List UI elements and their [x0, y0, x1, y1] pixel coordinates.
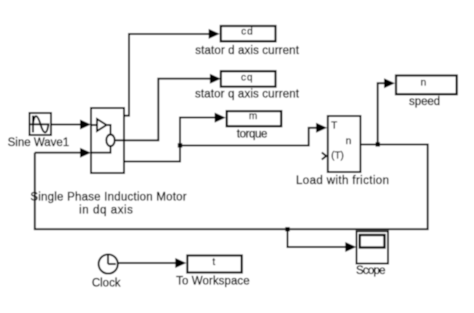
- svg-text:Scope: Scope: [356, 265, 386, 277]
- svg-text:Clock: Clock: [92, 277, 121, 289]
- svg-text:n: n: [346, 136, 352, 147]
- svg-text:cd: cd: [241, 26, 253, 37]
- svg-text:stator q axis current: stator q axis current: [195, 88, 300, 100]
- svg-text:T: T: [331, 120, 337, 131]
- svg-text:Single Phase Induction Motor: Single Phase Induction Motor: [30, 192, 186, 204]
- svg-text:torque: torque: [237, 128, 268, 140]
- svg-text:m: m: [249, 111, 257, 122]
- svg-text:speed: speed: [409, 96, 440, 108]
- svg-text:stator d axis current: stator d axis current: [195, 45, 299, 57]
- svg-text:(T): (T): [331, 151, 344, 162]
- svg-text:To Workspace: To Workspace: [176, 275, 250, 287]
- svg-text:cq: cq: [241, 73, 253, 84]
- svg-text:Load with friction: Load with friction: [296, 175, 389, 187]
- svg-text:in dq axis: in dq axis: [79, 204, 133, 216]
- svg-text:n: n: [421, 78, 427, 89]
- svg-text:Sine Wave1: Sine Wave1: [8, 137, 70, 149]
- svg-text:t: t: [212, 257, 215, 268]
